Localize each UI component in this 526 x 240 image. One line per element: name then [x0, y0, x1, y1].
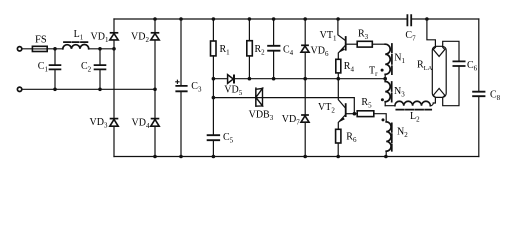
svg-text:Tr: Tr: [369, 66, 378, 79]
svg-text:C6: C6: [467, 60, 478, 73]
svg-text:VT2: VT2: [318, 102, 335, 115]
svg-text:C3: C3: [191, 81, 202, 94]
svg-text:VD6: VD6: [311, 46, 329, 59]
svg-text:RLA: RLA: [417, 59, 433, 72]
svg-text:N3: N3: [394, 86, 405, 99]
svg-text:N1: N1: [394, 53, 405, 66]
svg-text:C2: C2: [81, 61, 92, 74]
svg-text:FS: FS: [35, 34, 47, 45]
svg-text:C4: C4: [283, 44, 294, 57]
svg-text:R5: R5: [361, 97, 372, 110]
svg-text:VD5: VD5: [224, 85, 242, 98]
svg-text:L1: L1: [74, 29, 84, 42]
svg-text:C8: C8: [490, 90, 501, 103]
svg-text:R2: R2: [255, 44, 266, 57]
svg-text:R4: R4: [344, 61, 355, 74]
svg-text:L2: L2: [410, 111, 420, 124]
svg-text:VDB3: VDB3: [249, 109, 274, 122]
svg-text:VD7: VD7: [282, 114, 300, 127]
svg-text:VD4: VD4: [132, 117, 150, 130]
svg-text:C5: C5: [223, 132, 234, 145]
svg-text:VD3: VD3: [90, 117, 108, 130]
svg-text:VD1: VD1: [91, 32, 109, 45]
svg-text:N2: N2: [397, 126, 408, 139]
svg-text:R6: R6: [346, 132, 357, 145]
svg-text:R1: R1: [220, 44, 231, 57]
svg-text:C1: C1: [38, 61, 49, 74]
svg-text:C7: C7: [405, 30, 416, 43]
svg-text:R3: R3: [358, 29, 369, 42]
svg-text:VT1: VT1: [320, 30, 337, 43]
svg-text:VD2: VD2: [131, 32, 149, 45]
